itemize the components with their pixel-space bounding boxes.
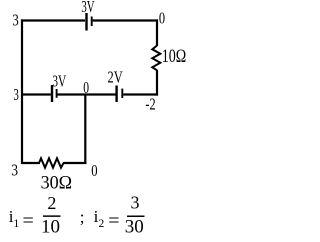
svg-text:1: 1 bbox=[14, 218, 20, 230]
svg-text:0: 0 bbox=[91, 161, 97, 180]
svg-text:3: 3 bbox=[131, 192, 140, 212]
formula fraction bar 2 bbox=[127, 215, 145, 217]
svg-text:30Ω: 30Ω bbox=[41, 173, 73, 194]
svg-text:=: = bbox=[23, 210, 34, 232]
battery V1 short plate bbox=[91, 17, 93, 27]
svg-text:10Ω: 10Ω bbox=[162, 46, 187, 67]
svg-text:0: 0 bbox=[83, 78, 89, 97]
wire middle segment left bbox=[21, 93, 51, 95]
battery V2 short plate bbox=[56, 89, 58, 98]
wire left vertical bbox=[21, 19, 23, 164]
resistor R2 30ohm zigzag bbox=[39, 158, 64, 167]
svg-text:3V: 3V bbox=[52, 71, 66, 90]
svg-text:3: 3 bbox=[11, 161, 18, 180]
battery V1 long plate bbox=[85, 13, 87, 31]
wire node-0 vertical bbox=[84, 95, 86, 165]
wire right vertical lower bbox=[156, 70, 158, 96]
svg-text:3V: 3V bbox=[81, 0, 94, 16]
wire middle segment right bbox=[123, 93, 158, 95]
wire top-left segment bbox=[21, 19, 85, 21]
battery V3 short plate bbox=[121, 89, 123, 98]
wire bottom-left segment bbox=[21, 162, 40, 164]
wire middle segment center bbox=[58, 93, 116, 95]
svg-text:2V: 2V bbox=[108, 67, 123, 86]
svg-text:2: 2 bbox=[99, 218, 105, 230]
svg-text:-2: -2 bbox=[145, 95, 155, 114]
svg-text:;: ; bbox=[80, 208, 85, 227]
svg-text:3: 3 bbox=[12, 11, 18, 30]
svg-text:0: 0 bbox=[159, 9, 165, 28]
battery V3 long plate bbox=[115, 86, 117, 103]
svg-text:=: = bbox=[108, 210, 119, 232]
svg-text:10: 10 bbox=[41, 217, 60, 238]
battery V2 long plate bbox=[51, 85, 53, 102]
svg-text:2: 2 bbox=[47, 193, 56, 213]
wire right vertical upper bbox=[156, 19, 158, 46]
svg-text:30: 30 bbox=[125, 217, 144, 238]
formula fraction bar 1 bbox=[43, 215, 61, 217]
wire top-right segment bbox=[93, 19, 158, 21]
svg-text:3: 3 bbox=[13, 85, 19, 104]
wire bottom-right segment bbox=[63, 162, 86, 164]
resistor R1 10ohm zigzag bbox=[152, 46, 160, 71]
